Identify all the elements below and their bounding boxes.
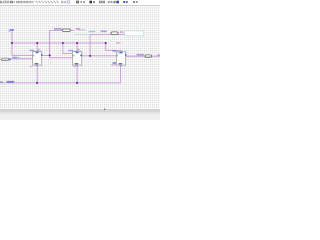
label R3 name <box>137 54 144 56</box>
transistor M2 body <box>73 52 82 67</box>
label M2 bottom magenta <box>73 66 76 67</box>
wire riser to R1 <box>50 30 63 55</box>
wire R2 out to teal frame <box>118 34 125 36</box>
label M1 magenta <box>38 49 40 50</box>
label R3 value magenta <box>157 54 160 56</box>
label M3 name <box>113 50 117 52</box>
wire VDD top rail <box>12 42 106 44</box>
net frame teal box <box>125 31 144 36</box>
junction M1 output node <box>49 54 51 56</box>
label M3 bottom outside blue <box>113 62 116 64</box>
transistor M1 body <box>33 52 43 67</box>
label ground blue <box>7 81 15 83</box>
wire M2 top drop <box>76 43 78 52</box>
wire ground rail <box>0 65 121 83</box>
junction VDD rail left <box>11 42 13 44</box>
label M1 bottom magenta <box>30 66 33 67</box>
status bar band <box>0 109 160 120</box>
toolbar <box>0 0 160 6</box>
wire M1 bottom to ground rail <box>36 66 38 83</box>
junction M2 ground <box>76 82 78 84</box>
label M2 magenta <box>78 49 80 50</box>
junction M2 upper-left drop <box>62 42 64 44</box>
grid stipple <box>0 6 160 109</box>
label input name blue <box>12 57 17 59</box>
junction rail to M3 <box>105 42 107 44</box>
resistor R3 body <box>145 55 152 57</box>
junction M2 top drop <box>76 42 78 44</box>
label teal net name before R2 <box>89 31 96 32</box>
label R2 name <box>101 31 107 32</box>
teal tick at x82.6 <box>81 53 84 58</box>
schematic canvas grid <box>0 5 160 109</box>
transistor M3 body <box>116 52 126 67</box>
resistor R1 body <box>63 29 71 32</box>
label M3 value teal <box>118 52 122 53</box>
wire M1 top drop <box>36 43 38 52</box>
wire M3 output to R3 <box>126 55 145 57</box>
label input teal <box>17 57 19 58</box>
wire VDD to M1 upper-left pin <box>12 54 33 56</box>
VDD teal flag <box>9 31 10 32</box>
wire rail to M2 upper-left pin <box>63 43 73 54</box>
label M2 name <box>68 50 73 52</box>
wire M1 output <box>42 54 50 56</box>
junction M1 top drop <box>36 42 38 44</box>
label R1 name <box>54 28 62 30</box>
wire junction J1 down to M2 lower-left pin <box>50 55 72 57</box>
wire M2 output to M3 input <box>82 55 117 57</box>
wire VDD vertical drop x=12 <box>11 31 13 55</box>
ground stub left <box>0 82 3 83</box>
wire M3 bottom stub left <box>111 64 121 66</box>
wire R3 out to edge <box>152 55 160 57</box>
wire R2 feed <box>90 35 111 56</box>
wire M2 bottom to ground rail <box>76 66 78 83</box>
source V1 body <box>0 58 2 60</box>
teal underline net text <box>74 33 95 36</box>
label M3 magenta <box>116 42 120 43</box>
junction M2 output node <box>89 55 91 57</box>
wire rail to M3 top jog <box>106 43 122 52</box>
label M1 name <box>30 50 35 51</box>
source V1 terminal blue <box>9 58 11 60</box>
label faint blue dashes after R1 value <box>79 29 86 30</box>
junction M1 ground <box>36 82 38 84</box>
label R2 value magenta <box>120 31 124 33</box>
label M1 value teal <box>34 51 39 52</box>
wire R1 out to x83 <box>70 29 74 31</box>
toolbar icons <box>0 1 138 4</box>
node VDD label <box>10 29 14 31</box>
wire source to M1 lower-left pin <box>11 58 33 60</box>
label R1 value magenta <box>76 28 80 30</box>
resistor R2 body <box>111 32 118 35</box>
label M2 value teal <box>74 51 79 52</box>
status bar tick <box>104 109 105 110</box>
